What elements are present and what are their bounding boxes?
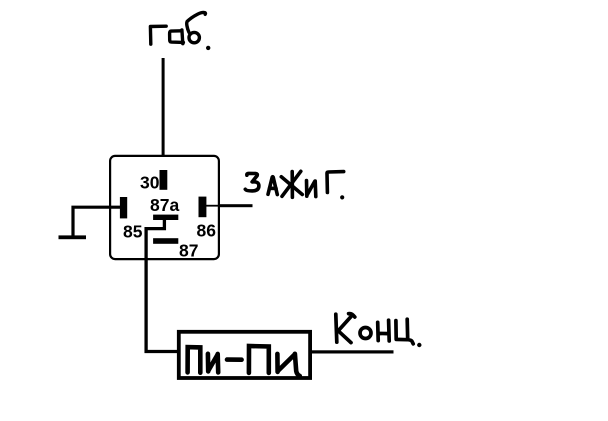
svg-text:87a: 87a xyxy=(150,195,179,215)
ground xyxy=(59,235,87,239)
wire Пи-Пи to Конц. xyxy=(312,350,394,353)
svg-text:30: 30 xyxy=(140,173,160,193)
pin 86 bar xyxy=(199,197,207,218)
relay body xyxy=(110,156,219,259)
svg-text:85: 85 xyxy=(123,222,143,242)
box Пи-Пи xyxy=(179,332,310,378)
svg-text:86: 86 xyxy=(197,221,217,241)
svg-text:87: 87 xyxy=(179,241,198,261)
node Габ. (handwritten label, top) xyxy=(150,12,210,50)
wire pin 87a internal jog to output xyxy=(146,220,178,352)
pin 87a bar xyxy=(153,215,178,220)
wire pin 86 to ЗАЖиГ (thin inside relay) xyxy=(206,205,220,207)
label Пи-Пи (handwritten, inside box) xyxy=(188,346,300,376)
wire pin 85 to ground xyxy=(73,207,121,237)
wire pin 86 to ЗАЖиГ (outside relay) xyxy=(219,204,253,207)
wire Габ. to pin 30 xyxy=(162,58,165,172)
pin 85 bar xyxy=(120,197,127,218)
node Конц. (handwritten label, bottom right) xyxy=(336,314,422,348)
pin 87 bar xyxy=(153,238,178,244)
pin 30 bar xyxy=(160,170,168,190)
node ЗАЖиГ. (handwritten label, right) xyxy=(245,171,344,199)
